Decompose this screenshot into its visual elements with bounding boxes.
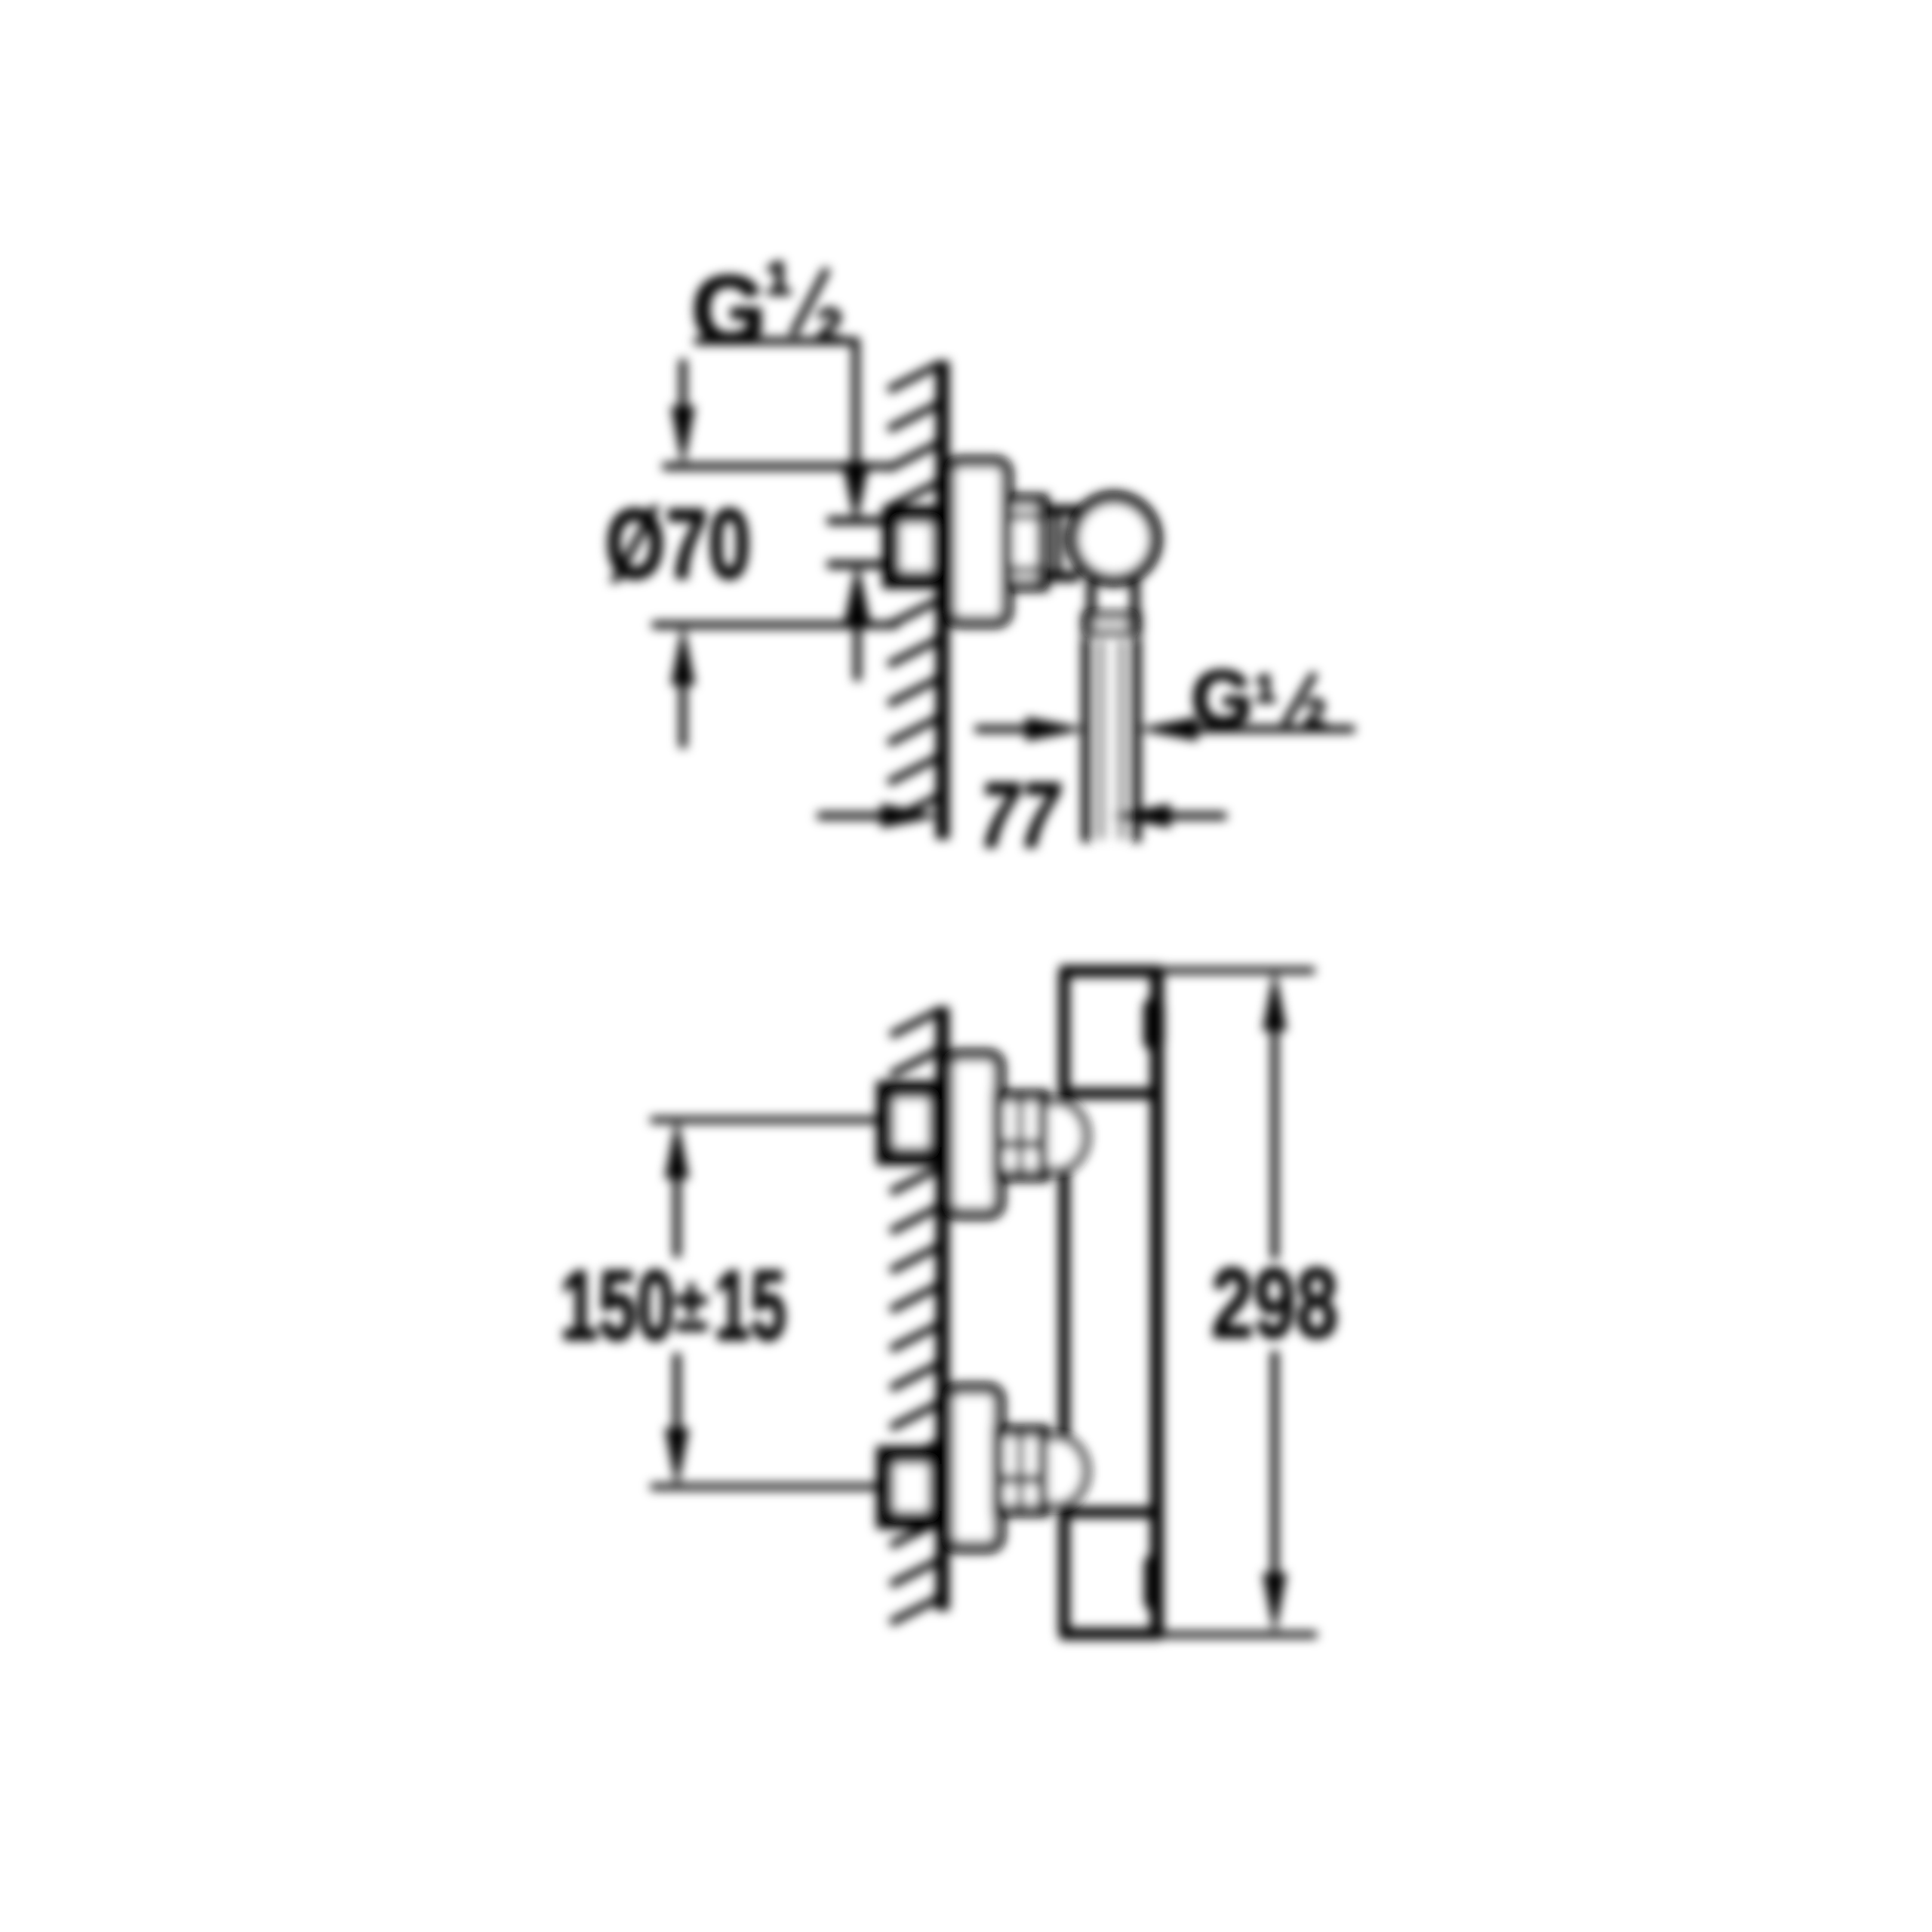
lower inlet nut in wall (bottom view) <box>885 1455 937 1520</box>
O70 bottom arrow <box>671 623 695 685</box>
svg-text:77: 77 <box>972 764 1066 866</box>
svg-text:±: ± <box>675 1263 708 1347</box>
wall line (top view) <box>936 361 949 839</box>
outlet connector band <box>1081 611 1142 635</box>
G1/2 right dimension arrows at outlet pipe <box>975 725 1032 733</box>
G1/2 leader arrow down onto inlet pipe <box>842 462 869 525</box>
svg-text:298: 298 <box>1211 1247 1338 1358</box>
handle edge bars on body right edge <box>1143 998 1164 1051</box>
inlet nut in wall (top view) <box>891 515 940 580</box>
wall hatching (bottom view) <box>891 1011 938 1623</box>
svg-text:1: 1 <box>765 253 791 305</box>
svg-text:2: 2 <box>1304 691 1326 735</box>
G1/2 label top-left <box>691 253 842 365</box>
union nut (top view) <box>1007 500 1043 586</box>
150+-15 dimension line and arrows <box>665 1117 689 1179</box>
298 extension lines <box>1161 968 1315 974</box>
mixer body outline <box>1059 971 1070 1634</box>
upper inlet nut in wall (bottom view) <box>885 1090 937 1156</box>
G1/2 lower arrow up onto inlet pipe <box>844 561 871 625</box>
svg-text:G: G <box>691 257 767 365</box>
svg-text:15: 15 <box>714 1250 786 1361</box>
outlet pipe <box>1081 638 1091 842</box>
77 dimension <box>817 812 884 820</box>
valve body between nut and handle <box>1043 505 1079 515</box>
O70 top arrow <box>679 359 687 414</box>
O70 dimension extension lines <box>663 463 894 470</box>
wall line (bottom view) <box>936 1007 949 1611</box>
150+-15 extension lines <box>651 1117 884 1124</box>
G1/2 label right <box>1191 654 1326 743</box>
lower union nut (bottom view) <box>998 1431 1044 1511</box>
upper escutcheon (bottom view) <box>948 1055 999 1214</box>
handle knob circle (top view) <box>1072 497 1155 580</box>
svg-text:150: 150 <box>560 1250 675 1361</box>
inlet pipe stub behind wall <box>827 517 892 525</box>
svg-text:Ø70: Ø70 <box>605 488 751 599</box>
lower union cap <box>1044 1437 1086 1506</box>
escutcheon flange (top view) <box>949 462 1007 622</box>
G1/2 leader (top-left) <box>694 341 856 469</box>
svg-text:1: 1 <box>1254 667 1276 711</box>
lower escutcheon (bottom view) <box>948 1389 999 1547</box>
body junction lines <box>1060 1088 1161 1100</box>
298 dimension line and arrows <box>1263 968 1287 1031</box>
neck below handle <box>1087 581 1096 614</box>
svg-text:G: G <box>1191 654 1253 743</box>
upper union nut (bottom view) <box>998 1096 1044 1176</box>
wall hatching (top view) <box>888 365 937 822</box>
upper union cap <box>1044 1102 1086 1171</box>
